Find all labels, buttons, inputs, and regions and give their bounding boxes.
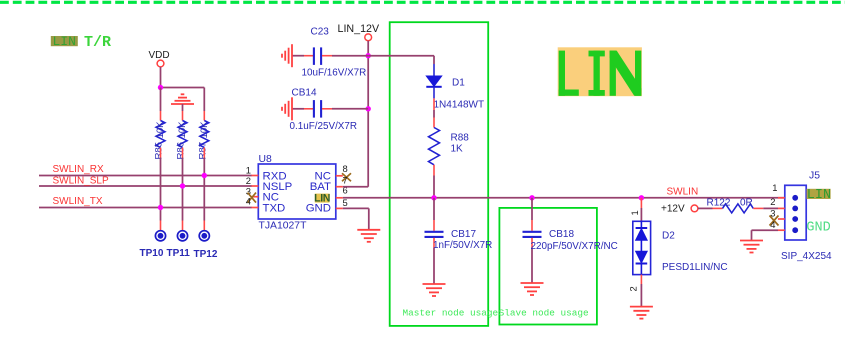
svg-text:LIN: LIN [53, 34, 76, 49]
pin 2 stub U8 [252, 185, 259, 187]
pin 7 stub U8 [336, 186, 343, 188]
pin 1 stub J5 [778, 197, 785, 199]
resistor R122 0R [707, 197, 764, 213]
wire net SWLIN_SLP [39, 185, 252, 187]
wire VDD corner to R87 [203, 88, 205, 121]
svg-text:TJA1027T: TJA1027T [259, 221, 308, 232]
power +12V [661, 204, 698, 215]
svg-text:LIN: LIN [807, 188, 831, 203]
svg-text:8: 8 [343, 163, 348, 174]
svg-text:0R: 0R [740, 197, 753, 208]
wire net SWLIN_RX [39, 175, 252, 177]
wire R88 to LIN net [433, 165, 435, 198]
wire VDD vertical [160, 67, 162, 88]
pin 3 stub U8 [252, 196, 259, 198]
wire VDD horizontal to R87 [161, 87, 205, 89]
wire LIN_12V rail vertical [367, 41, 369, 110]
pin 4 stub J5 [778, 229, 785, 231]
svg-text:SIP_4X254: SIP_4X254 [781, 251, 832, 262]
ground at CB18 [521, 283, 544, 295]
svg-text:1: 1 [246, 164, 251, 175]
svg-text:R86: R86 [176, 142, 187, 160]
svg-text:GND: GND [806, 220, 830, 235]
pin 1 stub U8 [252, 175, 259, 177]
wire U8 BAT to LIN_12V rail [343, 110, 368, 187]
wire U8 GND to ground [343, 208, 369, 229]
diode D1 1N4148WT [426, 64, 484, 111]
capacitor C23 [292, 26, 368, 78]
wire J5 pin 4 to ground [752, 230, 779, 240]
wire ground to R86 [182, 104, 184, 121]
junction VDD node [158, 85, 163, 90]
power VDD [149, 50, 170, 67]
junction R85 to SWLIN_TX [158, 205, 163, 210]
svg-text:TP11: TP11 [167, 248, 191, 259]
pin 6 stub U8 [336, 197, 343, 199]
junction R88/CB17 on LIN net [431, 195, 436, 200]
green box Slave node usage [499, 208, 597, 325]
svg-text:R87: R87 [198, 142, 209, 160]
power LIN_12V [338, 23, 380, 41]
junction CB18 on LIN net [529, 195, 534, 200]
resistor R87 10K [198, 121, 211, 160]
ground inverted above R86 [171, 94, 194, 104]
junction C23 node [366, 53, 371, 58]
wire R85 down to TP10 [160, 148, 162, 231]
junction CB14 node [366, 106, 371, 111]
svg-text:1: 1 [629, 210, 640, 215]
ground at CB17 [423, 284, 446, 296]
svg-text:Slave node usage: Slave node usage [499, 308, 589, 319]
svg-text:TXD: TXD [263, 202, 286, 214]
pin 4 stub U8 [252, 207, 259, 209]
svg-text:T/R: T/R [84, 34, 111, 51]
IC U8 TJA1027T [258, 154, 336, 232]
resistor R88 1K [429, 128, 470, 165]
svg-text:J5: J5 [809, 170, 820, 181]
no-connect X on J5 pin 3 [770, 216, 779, 226]
svg-text:TP10: TP10 [140, 248, 164, 259]
ground at U8 pin 5 [357, 230, 380, 242]
svg-text:VDD: VDD [149, 50, 170, 61]
capacitor CB14 [290, 87, 369, 132]
svg-text:R122: R122 [707, 197, 731, 208]
svg-text:U8: U8 [259, 154, 273, 165]
svg-text:2: 2 [628, 286, 639, 291]
wire R122 to J5 pin 2 [763, 207, 778, 209]
ground at D2 [630, 307, 653, 319]
capacitor CB18 [523, 198, 618, 283]
label LIN T/R [51, 34, 111, 51]
svg-text:D2: D2 [662, 231, 675, 242]
svg-text:R85: R85 [154, 142, 165, 160]
junction R87 to SWLIN_RX [202, 173, 207, 178]
svg-text:+12V: +12V [661, 204, 685, 215]
svg-text:10uF/16V/X7R: 10uF/16V/X7R [302, 68, 367, 79]
wire LIN net (U8 pin6 to J5 pin1) [343, 197, 785, 199]
svg-text:1K: 1K [451, 144, 464, 155]
svg-text:SWLIN: SWLIN [667, 187, 699, 198]
svg-text:PESD1LIN/NC: PESD1LIN/NC [662, 262, 728, 273]
wire D1 to R88 [433, 98, 435, 127]
junction R86 to SWLIN_SLP [180, 183, 185, 188]
svg-text:R88: R88 [451, 132, 470, 143]
green box Master node usage [390, 22, 499, 326]
svg-text:220pF/50V/X7R/NC: 220pF/50V/X7R/NC [531, 241, 618, 252]
wire +12V to R122 [698, 207, 713, 209]
wire R87 down to TP12 [203, 148, 205, 231]
test point TP11 [167, 231, 191, 259]
ground at CB14 (rotated left) [282, 97, 292, 120]
svg-text:CB18: CB18 [549, 229, 574, 240]
svg-text:10K: 10K [199, 121, 210, 139]
logo LIN [558, 47, 642, 96]
svg-text:LIN_12V: LIN_12V [338, 23, 380, 35]
svg-text:Master node usage: Master node usage [403, 308, 499, 319]
TVS diode D2 PESD1LIN/NC [628, 198, 728, 292]
sheet top dashed green line [0, 1, 845, 4]
svg-text:10K: 10K [177, 121, 188, 139]
svg-text:2: 2 [770, 196, 775, 207]
ground at C23 (rotated left) [282, 44, 292, 67]
pin 5 stub U8 [336, 207, 343, 209]
svg-text:SWLIN_SLP: SWLIN_SLP [53, 176, 109, 187]
pin 3 stub J5 [778, 218, 785, 220]
test point TP12 [194, 231, 218, 260]
wire VDD to R85 [160, 88, 162, 121]
connector J5 SIP_4X254 [781, 170, 832, 261]
resistor R85 10K [154, 121, 167, 160]
no-connect X on U8 pin 3 [248, 193, 256, 203]
resistor R86 10K [176, 121, 189, 160]
svg-text:4: 4 [246, 196, 251, 207]
svg-text:GND: GND [306, 202, 331, 214]
svg-text:0.1uF/25V/X7R: 0.1uF/25V/X7R [290, 121, 358, 132]
pin 2 stub J5 [778, 207, 785, 209]
svg-text:4: 4 [770, 219, 775, 230]
label LIN at J5 pin 1 [807, 188, 832, 203]
svg-text:1: 1 [772, 182, 777, 193]
no-connect X on U8 pin 8 [342, 173, 351, 181]
svg-text:1nF/50V/X7R: 1nF/50V/X7R [433, 240, 492, 251]
junction D2 on LIN net [639, 195, 644, 200]
svg-text:1N4148WT: 1N4148WT [434, 100, 485, 111]
svg-text:SWLIN_TX: SWLIN_TX [53, 196, 103, 207]
svg-text:10K: 10K [155, 121, 166, 139]
svg-text:C23: C23 [311, 26, 330, 37]
svg-text:SWLIN_RX: SWLIN_RX [53, 164, 104, 175]
pin 8 stub U8 [336, 175, 343, 177]
svg-text:CB14: CB14 [292, 87, 317, 98]
wire R86 down to TP11 [182, 148, 184, 231]
svg-text:TP12: TP12 [194, 249, 218, 260]
svg-text:2: 2 [246, 175, 251, 186]
test point TP10 [140, 231, 166, 259]
wire LIN_12V to D1 [368, 56, 434, 64]
ground at J5 pin 4 [740, 241, 763, 253]
svg-text:D1: D1 [452, 78, 465, 89]
capacitor CB17 [425, 198, 493, 284]
wire D2 to ground [640, 275, 642, 307]
svg-text:CB17: CB17 [451, 229, 476, 240]
wire net SWLIN_TX [39, 207, 252, 209]
